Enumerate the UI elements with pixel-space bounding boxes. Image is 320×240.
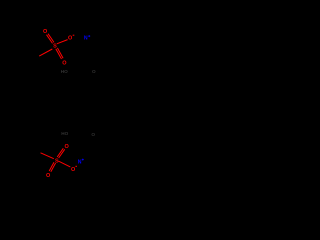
wire: S-O single bond (bottom) <box>58 161 70 167</box>
svg-text:O: O <box>43 29 48 35</box>
plus sign (bottom N+) <box>82 159 84 161</box>
svg-text:O: O <box>62 61 67 67</box>
wire: CH3-S bond (bottom) <box>41 153 54 159</box>
svg-text:O: O <box>91 132 95 137</box>
svg-text:O: O <box>46 173 51 179</box>
svg-text:HO: HO <box>61 69 68 74</box>
svg-text:HO: HO <box>61 131 68 136</box>
svg-text:O: O <box>71 167 76 173</box>
svg-text:O: O <box>68 35 73 41</box>
wire: S=O double bond lower-left (bottom) <box>49 162 54 171</box>
plus sign (top N+) <box>88 35 90 37</box>
top N+ cation label <box>84 35 90 41</box>
bottom mesylate anion CH3SO3- <box>41 148 78 172</box>
svg-text:O: O <box>64 144 69 150</box>
svg-text:S: S <box>55 158 59 164</box>
wire: S=O double bond lower-right (top) <box>56 49 62 59</box>
svg-text:O: O <box>92 69 96 74</box>
wire: S-O single bond (top) <box>57 40 68 44</box>
wire: CH3-S bond (top) <box>39 49 52 56</box>
svg-text:S: S <box>53 44 57 50</box>
wire: S=O double bond upper-left (top) <box>47 35 53 44</box>
svg-text:N: N <box>84 35 88 41</box>
svg-text:N: N <box>78 159 82 165</box>
bottom N+ cation label <box>78 159 84 166</box>
top mesylate anion CH3SO3- <box>39 34 74 59</box>
minus sign on O- (bottom) <box>75 165 77 167</box>
minus sign on O- (top) <box>73 34 75 36</box>
wire: S=O double bond upper-right (bottom) <box>59 149 65 158</box>
